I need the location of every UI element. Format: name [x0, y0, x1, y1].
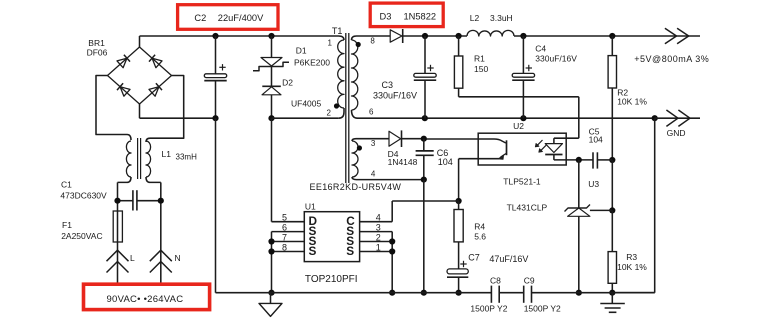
svg-text:D2: D2: [282, 78, 293, 88]
svg-text:47uF/16V: 47uF/16V: [489, 254, 528, 264]
svg-text:T1: T1: [332, 26, 343, 36]
svg-text:C7: C7: [468, 253, 480, 263]
svg-text:1N4148: 1N4148: [388, 157, 418, 167]
svg-text:2: 2: [376, 232, 381, 242]
svg-text:TOP210PFI: TOP210PFI: [305, 274, 358, 285]
svg-text:P6KE200: P6KE200: [294, 58, 330, 68]
svg-text:8: 8: [282, 242, 287, 252]
svg-text:N: N: [175, 253, 181, 263]
svg-text:5: 5: [282, 213, 287, 223]
svg-text:U2: U2: [513, 121, 524, 131]
svg-text:1500P Y2: 1500P Y2: [470, 304, 507, 314]
svg-text:2A250VAC: 2A250VAC: [61, 231, 102, 241]
svg-text:1500P Y2: 1500P Y2: [524, 304, 561, 314]
svg-text:D3: D3: [380, 12, 392, 22]
svg-text:3.3uH: 3.3uH: [490, 13, 513, 23]
svg-text:BR1: BR1: [88, 38, 105, 48]
svg-text:L2: L2: [470, 13, 480, 23]
svg-text:F1: F1: [62, 220, 72, 230]
svg-text:8: 8: [370, 37, 375, 46]
svg-text:R3: R3: [626, 252, 637, 262]
svg-text:104: 104: [438, 157, 453, 167]
svg-text:4: 4: [376, 213, 381, 223]
svg-text:D1: D1: [296, 46, 307, 56]
svg-text:330uF/16V: 330uF/16V: [535, 54, 577, 64]
svg-text:3: 3: [376, 222, 381, 232]
svg-text:TLP521-1: TLP521-1: [503, 177, 541, 187]
svg-text:6: 6: [369, 108, 374, 117]
svg-text:R4: R4: [474, 222, 485, 232]
svg-text:L: L: [130, 253, 135, 263]
svg-text:90VAC• •264VAC: 90VAC• •264VAC: [107, 294, 184, 305]
svg-text:C4: C4: [535, 44, 546, 54]
svg-text:C9: C9: [524, 276, 535, 286]
svg-text:L1: L1: [162, 149, 172, 159]
svg-text:U3: U3: [588, 179, 599, 189]
svg-text:UF4005: UF4005: [291, 99, 322, 109]
svg-text:3: 3: [371, 139, 376, 148]
svg-text:6: 6: [282, 222, 287, 232]
svg-text:150: 150: [474, 64, 488, 74]
svg-text:S: S: [309, 244, 317, 258]
svg-text:+5V@800mA 3%: +5V@800mA 3%: [634, 54, 709, 64]
svg-text:1N5822: 1N5822: [404, 12, 437, 22]
svg-text:C3: C3: [382, 80, 394, 90]
svg-text:S: S: [346, 244, 354, 258]
svg-text:DF06: DF06: [87, 48, 108, 58]
svg-text:5.6: 5.6: [474, 232, 486, 242]
svg-text:TL431CLP: TL431CLP: [507, 203, 548, 213]
svg-text:33mH: 33mH: [176, 153, 198, 162]
svg-text:C1: C1: [61, 180, 72, 190]
svg-text:330uF/16V: 330uF/16V: [373, 91, 417, 101]
svg-text:EE16R2KD-UR5V4W: EE16R2KD-UR5V4W: [310, 182, 402, 192]
svg-text:1: 1: [328, 39, 333, 48]
svg-text:GND: GND: [667, 128, 686, 138]
svg-text:473DC630V: 473DC630V: [60, 191, 107, 201]
svg-text:C2: C2: [194, 13, 206, 23]
svg-text:10K 1%: 10K 1%: [617, 97, 647, 107]
svg-text:R1: R1: [474, 54, 485, 64]
svg-text:C8: C8: [490, 276, 501, 286]
svg-text:104: 104: [589, 135, 603, 145]
svg-text:22uF/400V: 22uF/400V: [218, 13, 264, 23]
svg-text:U1: U1: [305, 202, 316, 212]
svg-text:1: 1: [376, 242, 381, 252]
svg-text:10K 1%: 10K 1%: [617, 262, 647, 272]
svg-text:2: 2: [327, 109, 332, 118]
svg-text:4: 4: [371, 170, 376, 179]
svg-text:7: 7: [282, 232, 287, 242]
